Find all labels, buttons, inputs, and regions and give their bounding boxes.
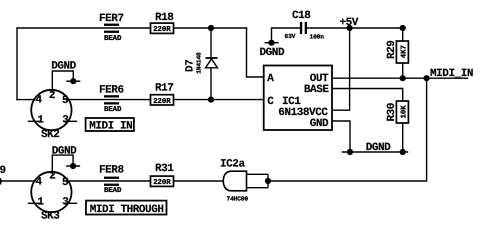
svg-text:GND: GND [310, 118, 329, 130]
svg-text:MIDI IN: MIDI IN [89, 121, 132, 133]
svg-text:OUT: OUT [310, 73, 329, 85]
svg-text:MIDI_IN: MIDI_IN [430, 68, 473, 80]
ferrite bead FER7 [99, 13, 124, 43]
wire MIDI_IN row from IC1 OUT to net stub end [332, 77, 468, 79]
svg-text:DGND: DGND [52, 146, 77, 158]
svg-text:IC2a: IC2a [220, 159, 245, 171]
svg-text:220R: 220R [153, 98, 171, 106]
junction IC2a input tie [265, 178, 271, 184]
svg-text:C: C [267, 96, 274, 108]
wire D7 vertical between node A row and node C row [210, 28, 212, 100]
svg-text:R29: R29 [386, 41, 398, 59]
wire from node at D7 top down to IC1 pin A [247, 28, 264, 77]
wire DGND rail horizontal [343, 151, 408, 153]
wire R30 bottom to DGND rail [402, 123, 404, 152]
pin 3 label and tick [63, 120, 77, 122]
pin 1 label and tick [28, 202, 41, 204]
svg-text:BEAD: BEAD [104, 187, 122, 195]
svg-text:10K: 10K [401, 105, 409, 119]
svg-text:2: 2 [49, 90, 55, 102]
svg-text:4K7: 4K7 [401, 45, 409, 58]
svg-text:63V: 63V [285, 33, 296, 40]
capacitor C18 100n 63V [285, 10, 325, 41]
power +5V node [340, 17, 359, 31]
svg-text:100n: 100n [310, 34, 325, 41]
pin 3 label and tick [63, 202, 77, 204]
junction corner above R29 [400, 25, 406, 31]
svg-text:5: 5 [62, 177, 69, 189]
junction IC1 GND on DGND rail [347, 149, 353, 155]
svg-text:1: 1 [37, 115, 44, 127]
wire IC1 GND down to DGND rail [332, 121, 350, 152]
connector SK2 MIDI IN socket [28, 90, 77, 141]
diode D7 1N4148 [185, 52, 218, 74]
svg-text:74HC00: 74HC00 [227, 195, 249, 202]
junction R29 bottom on MIDI_IN row [400, 75, 406, 81]
svg-text:5: 5 [62, 95, 69, 107]
svg-text:220R: 220R [153, 26, 171, 34]
svg-text:FER7: FER7 [99, 13, 124, 25]
wire R29 bottom to MIDI_IN row [402, 63, 404, 78]
wire SK2 pin5 through FER6 and R17 to IC1 pin C [66, 99, 264, 101]
svg-text:R17: R17 [155, 83, 173, 95]
svg-text:FER6: FER6 [99, 85, 124, 97]
svg-text:MIDI THROUGH: MIDI THROUGH [90, 204, 164, 216]
svg-text:C18: C18 [292, 10, 311, 22]
junction R30 bottom on DGND rail [400, 149, 406, 155]
wire SK3 pin4 from page edge [0, 180, 35, 182]
svg-text:FER8: FER8 [99, 165, 124, 177]
resistor R31 220R [151, 163, 175, 187]
wire SK3 pin5 through FER8 and R31 to IC2a output [66, 180, 224, 182]
svg-text:2: 2 [49, 171, 55, 183]
wire SK2 pin4 to left rail [17, 99, 35, 101]
svg-text:1N4148: 1N4148 [195, 52, 202, 74]
svg-text:R18: R18 [155, 12, 174, 24]
ground DGND stub above SK2 [51, 60, 80, 84]
pin 1 label and tick [28, 120, 41, 122]
svg-text:A: A [267, 73, 274, 85]
svg-text:BEAD: BEAD [104, 35, 122, 43]
ferrite bead FER8 [99, 165, 124, 196]
wire C18 branch corner to DGND stub [272, 28, 301, 43]
ferrite bead FER6 [99, 85, 124, 114]
wire C18 right plate to +5V node and corner above R29 [307, 27, 403, 29]
svg-text:0: 0 [0, 177, 2, 189]
svg-text:3: 3 [62, 115, 69, 127]
svg-text:BASE: BASE [304, 84, 329, 96]
wire R29 top stub [402, 28, 404, 41]
resistor R17 220R [151, 83, 174, 106]
svg-text:SK3: SK3 [41, 210, 60, 222]
label box MIDI IN [86, 118, 134, 133]
svg-text:+5V: +5V [340, 17, 359, 29]
ground DGND stub above SK3 [52, 146, 80, 169]
wire SK2 pin2 to DGND stub [52, 71, 73, 92]
svg-text:4: 4 [36, 95, 43, 107]
resistor R18 220R [151, 12, 175, 34]
wire SK3 pin2 to DGND stub [52, 155, 73, 174]
svg-text:9: 9 [0, 165, 6, 177]
resistor R30 10K [386, 101, 409, 123]
svg-text:DGND: DGND [51, 60, 76, 72]
svg-text:R30: R30 [386, 103, 398, 121]
wire MIDI_IN corner down to IC2a input tie [268, 78, 427, 181]
svg-text:220R: 220R [153, 179, 171, 187]
label box MIDI THROUGH [86, 201, 167, 216]
gate IC2a 74HC00 [220, 159, 268, 203]
ground DGND stub under C18 [260, 40, 285, 59]
wire top rail from left corner through FER7 and R18 to node above D7 [17, 28, 247, 100]
junction node D7 cathode row C [208, 97, 214, 103]
svg-text:DGND: DGND [260, 47, 285, 59]
svg-text:SK2: SK2 [41, 129, 59, 141]
svg-text:R31: R31 [155, 163, 174, 175]
resistor R29 4K7 [386, 41, 409, 63]
svg-text:3: 3 [62, 197, 69, 209]
svg-text:4: 4 [36, 177, 43, 189]
connector SK3 MIDI THROUGH socket [28, 171, 77, 223]
wire IC1 BASE to R30 top [332, 89, 403, 102]
svg-text:DGND: DGND [366, 142, 391, 154]
svg-text:BEAD: BEAD [104, 106, 122, 114]
wire IC1 VCC up to +5V node [332, 28, 350, 110]
op-amp IC1 6N138 optocoupler [264, 66, 332, 131]
junction MIDI_IN corner [424, 75, 430, 81]
svg-text:1: 1 [37, 197, 44, 209]
junction node D7 anode row A [208, 25, 214, 31]
